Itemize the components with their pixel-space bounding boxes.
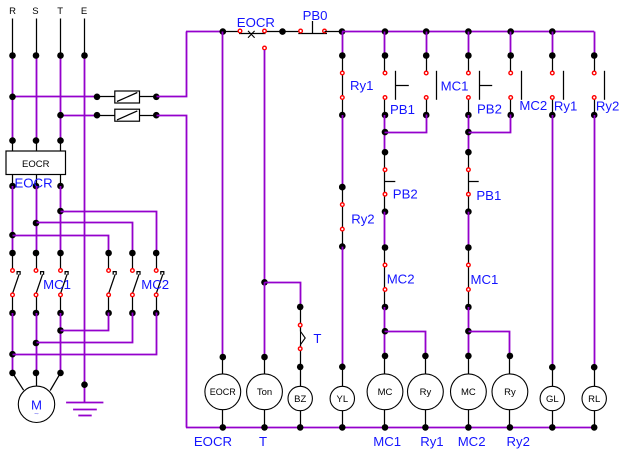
wire fwd branch mid <box>384 212 386 248</box>
wire fuse F1 to control rail riser <box>157 32 187 97</box>
contact MC1 aux (NO holding) <box>423 52 437 118</box>
wire fuse F2 to left control rail <box>157 116 187 428</box>
label PB1 (start fwd) <box>390 102 415 117</box>
wire rev branch to MC coil <box>465 307 472 359</box>
svg-text:PB0: PB0 <box>303 8 328 23</box>
wire phase S drop <box>33 19 40 141</box>
wire stub YL branch <box>342 32 344 56</box>
timer coil Ton <box>247 357 283 431</box>
svg-text:MC: MC <box>461 387 476 398</box>
svg-text:T: T <box>259 434 267 449</box>
svg-text:RL: RL <box>588 394 600 405</box>
wire PB2/MC2 join <box>465 115 510 153</box>
wire rail corner to Ry2 lamp branch <box>594 32 596 56</box>
wire fwd branch to MC coil <box>382 307 389 359</box>
wire YL branch mid <box>339 115 346 190</box>
svg-text:Ry1: Ry1 <box>350 78 373 93</box>
label Ry1 (YL branch) <box>350 78 373 93</box>
pushbutton PB1 (NC interlock, rev branch) <box>465 149 479 215</box>
wire branch R' to MC2 pole1 <box>13 236 109 253</box>
contactor MC1 main pole 3 <box>57 250 68 317</box>
contact Ry2 aux (NO, RL branch) <box>591 52 605 118</box>
label EOCR (power block) <box>15 175 53 190</box>
svg-text:EOCR: EOCR <box>194 434 232 449</box>
contactor coil MC (rev) <box>451 356 487 431</box>
wire phase R drop <box>9 19 16 141</box>
timer contact T (NO delayed) <box>297 307 305 370</box>
label MC1 (holding contact) <box>441 79 469 94</box>
svg-text:Ry2: Ry2 <box>351 211 374 226</box>
label Ry1 (coil) <box>420 434 443 449</box>
label Ry1 (GL branch) <box>554 99 577 114</box>
wire phase T drop <box>57 19 64 141</box>
wire R' drop to MC1 <box>9 186 16 253</box>
wire stub PB1 branch <box>384 32 386 56</box>
overload relay EOCR (block) <box>6 137 66 189</box>
svg-text:PB1: PB1 <box>390 102 415 117</box>
svg-text:EOCR: EOCR <box>237 15 275 30</box>
label MC2 (holding contact) <box>519 98 547 113</box>
contact MC2 aux (NO holding) <box>507 52 521 118</box>
svg-text:EOCR: EOCR <box>15 175 53 190</box>
svg-text:GL: GL <box>546 394 559 405</box>
svg-text:MC2: MC2 <box>141 277 169 292</box>
wire PB1/MC1 join <box>382 115 427 153</box>
pushbutton PB1 (NO start fwd) <box>382 52 409 118</box>
contactor MC1 main pole 2 <box>33 250 44 317</box>
svg-text:PB2: PB2 <box>477 102 502 117</box>
pushbutton PB0 (NC stop) <box>283 21 346 35</box>
svg-text:Ry: Ry <box>420 387 432 398</box>
wire branch S' to MC2 pole2 <box>37 223 133 253</box>
wire R to fuse F1 <box>9 94 100 101</box>
wire stub MC2 branch <box>510 32 512 56</box>
relay coil Ry (fwd) <box>408 356 444 431</box>
contactor coil MC (fwd) <box>367 356 403 431</box>
contact MC2 (NC interlock) <box>382 244 389 310</box>
wire top rail left <box>186 28 226 35</box>
label PB0 <box>303 8 328 23</box>
wire MC2 pole1 cross to T-motor <box>61 313 109 331</box>
wire MC1 pole2 out <box>33 313 40 376</box>
wire Ton feed lower <box>261 282 268 360</box>
label PB2 (fwd branch) <box>393 186 418 201</box>
contact EOCR trip (NC) <box>223 28 286 37</box>
label MC1 (coil) <box>373 434 401 449</box>
contactor MC1 main pole 1 <box>9 250 20 317</box>
svg-text:PB1: PB1 <box>476 188 501 203</box>
wire YL branch lower <box>339 247 346 371</box>
label PB1 (rev branch) <box>476 188 501 203</box>
label PB2 (start rev) <box>477 102 502 117</box>
node T (phase label) <box>57 6 63 17</box>
label Ry2 (RL branch) <box>596 99 619 114</box>
svg-text:Ton: Ton <box>257 387 272 398</box>
label T (timer contact) <box>313 331 321 346</box>
label T (timer coil) <box>259 434 267 449</box>
wire T' drop to MC1 <box>57 186 64 253</box>
node S (phase label) <box>32 6 38 17</box>
wire GL branch <box>549 115 556 371</box>
wire stub MC1 branch <box>426 32 428 56</box>
svg-text:EOCR: EOCR <box>22 159 50 170</box>
svg-text:MC2: MC2 <box>458 434 486 449</box>
label MC1 (power contacts) <box>43 277 71 292</box>
label MC2 (coil) <box>458 434 486 449</box>
fuse F1 <box>97 91 160 103</box>
contactor MC2 main pole 3 <box>153 250 164 317</box>
lamp YL <box>330 367 354 431</box>
wire branch to Ry coil (rev) <box>469 332 514 360</box>
node E (phase label) <box>81 6 87 17</box>
svg-text:R: R <box>9 6 16 17</box>
wire MC2 pole2 cross to S-motor <box>37 313 133 343</box>
wire stub PB2 branch <box>468 32 470 56</box>
wire MC2 pole3 cross to R-motor <box>13 313 157 355</box>
wire phase E drop <box>81 19 88 385</box>
svg-text:Ry2: Ry2 <box>596 99 619 114</box>
contact Ry1 aux (NO, GL branch) <box>549 52 564 118</box>
relay coil EOCR <box>205 357 241 431</box>
wire RL branch <box>591 115 598 371</box>
svg-text:Ry1: Ry1 <box>554 99 577 114</box>
svg-text:Ry2: Ry2 <box>507 434 530 449</box>
contact MC1 (NC interlock) <box>465 244 472 310</box>
wire EOCR coil feed <box>220 32 227 361</box>
svg-text:MC1: MC1 <box>441 79 469 94</box>
wire MC1 pole3 out <box>57 313 64 376</box>
contactor MC2 main pole 2 <box>129 250 140 317</box>
label MC2 (interlock) <box>387 271 415 286</box>
svg-text:Ry: Ry <box>504 387 516 398</box>
svg-text:S: S <box>32 6 38 17</box>
wire branch T' to MC2 pole3 <box>61 212 157 253</box>
label Ry2 (coil) <box>507 434 530 449</box>
contactor MC2 main pole 1 <box>105 250 116 317</box>
fuse F2 <box>97 109 160 121</box>
label Ry2 (YL branch) <box>351 211 374 226</box>
lamp RL <box>582 367 606 431</box>
svg-text:E: E <box>81 6 87 17</box>
motor M <box>13 373 61 423</box>
contact Ry2 (NC, YL branch) <box>339 184 346 250</box>
relay coil Ry (rev) <box>492 356 528 431</box>
svg-text:YL: YL <box>336 394 348 405</box>
wire top rail right <box>342 28 594 35</box>
wire branch to Ry coil (fwd) <box>385 332 429 360</box>
label MC1 (interlock) <box>471 272 499 287</box>
svg-text:BZ: BZ <box>294 394 306 405</box>
wire bottom rail <box>186 427 594 429</box>
wire S' drop to MC1 <box>33 186 40 253</box>
contact Ry1 (NC, YL branch) <box>339 52 346 118</box>
svg-text:Ry1: Ry1 <box>420 434 443 449</box>
svg-text:MC2: MC2 <box>387 271 415 286</box>
wire branch to timer contact <box>265 283 304 311</box>
wire MC1 pole1 out <box>9 313 16 376</box>
pushbutton PB2 (NC interlock, fwd branch) <box>382 149 396 215</box>
svg-text:T: T <box>313 331 321 346</box>
svg-text:~: ~ <box>34 410 39 419</box>
svg-text:MC1: MC1 <box>43 277 71 292</box>
svg-text:EOCR: EOCR <box>210 387 237 397</box>
label MC2 (power contacts) <box>141 277 169 292</box>
wire rev branch mid <box>468 212 470 248</box>
wire Ton feed <box>261 46 268 285</box>
svg-text:MC1: MC1 <box>471 272 499 287</box>
label EOCR (coil) <box>194 434 232 449</box>
wire stub GL branch <box>552 32 554 56</box>
svg-text:MC2: MC2 <box>519 98 547 113</box>
label EOCR (trip contact) <box>237 15 275 30</box>
svg-text:MC: MC <box>378 387 393 398</box>
pushbutton PB2 (NO start rev) <box>465 52 492 118</box>
ground <box>66 381 103 415</box>
node R (phase label) <box>9 6 16 17</box>
svg-text:MC1: MC1 <box>373 434 401 449</box>
svg-text:T: T <box>57 6 63 17</box>
buzzer BZ <box>288 367 312 431</box>
lamp GL <box>540 367 564 431</box>
wire T to fuse F2 <box>57 112 100 119</box>
svg-text:PB2: PB2 <box>393 186 418 201</box>
